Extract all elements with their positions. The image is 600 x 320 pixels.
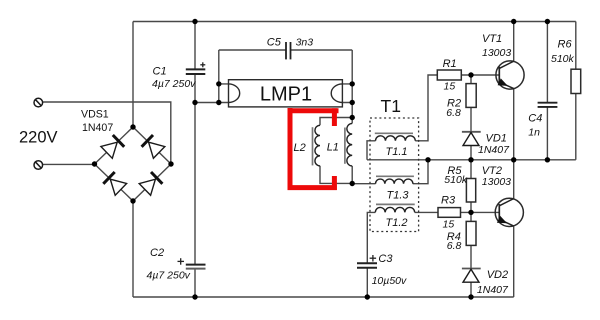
svg-text:L2: L2 <box>294 142 306 154</box>
polarity plus C2 <box>178 258 185 265</box>
polarity plus C1 <box>200 62 205 67</box>
polarity plus C3 <box>370 255 377 262</box>
winding T1.1 coil <box>376 136 416 141</box>
resistor R4 <box>466 221 476 245</box>
svg-text:1N407: 1N407 <box>478 144 510 156</box>
wire top DC rail <box>133 21 576 23</box>
capacitor C2 <box>186 265 206 269</box>
svg-text:C1: C1 <box>153 66 167 78</box>
svg-text:T1.3: T1.3 <box>387 189 410 201</box>
inductor L2 core bar <box>312 127 314 165</box>
svg-text:VT2: VT2 <box>482 165 502 177</box>
wire lower AC input <box>42 163 95 165</box>
svg-text:6.8: 6.8 <box>446 107 461 119</box>
svg-text:C5: C5 <box>267 37 282 49</box>
capacitor C4 <box>538 103 558 107</box>
svg-text:4µ7 250v: 4µ7 250v <box>152 78 196 90</box>
svg-text:C3: C3 <box>378 253 393 265</box>
svg-text:3n3: 3n3 <box>296 37 314 49</box>
svg-text:1N407: 1N407 <box>477 284 509 296</box>
winding T1.2 core bar <box>376 203 415 205</box>
resistor R6 <box>571 69 581 93</box>
wire T1.2 left to C3 <box>367 212 375 297</box>
wire VD1 to mid rail <box>470 146 472 160</box>
wire T1.2 right to R3 <box>415 211 438 213</box>
capacitor C1 <box>186 69 206 74</box>
svg-text:220V: 220V <box>19 129 58 147</box>
wire R4 column <box>470 212 472 221</box>
lamp LMP1 left filament <box>229 84 240 103</box>
svg-text:1N407: 1N407 <box>82 122 113 134</box>
transistor VT2 <box>495 198 523 226</box>
resistor R3 <box>438 208 461 218</box>
svg-text:10µ50v: 10µ50v <box>372 275 407 287</box>
svg-text:6.8: 6.8 <box>447 240 462 252</box>
wire R6 column <box>575 22 577 160</box>
svg-text:VT1: VT1 <box>482 33 502 45</box>
svg-text:R1: R1 <box>443 58 457 70</box>
winding T1.3 core bar <box>376 175 414 177</box>
diode bridge VDS1 top-left <box>101 135 124 158</box>
diode bridge VDS1 top-right <box>142 135 165 158</box>
winding T1.1 core bar <box>375 132 413 134</box>
wire VD2 to bottom rail <box>470 282 472 297</box>
wire R2 to VD1 <box>470 107 472 131</box>
svg-text:15: 15 <box>444 80 456 92</box>
wire lamp left node <box>195 50 229 103</box>
inductor L1 core bar <box>344 128 346 164</box>
wire upper AC input <box>42 102 171 164</box>
svg-text:R3: R3 <box>441 194 456 206</box>
capacitor C3 <box>357 263 377 268</box>
wire bottom rail <box>133 296 514 298</box>
svg-text:VDS1: VDS1 <box>81 109 109 121</box>
transistor VT1 <box>496 61 524 89</box>
svg-text:T1.2: T1.2 <box>386 217 408 229</box>
svg-text:T1.1: T1.1 <box>386 146 408 158</box>
wire T1.1 right end to R1 <box>415 75 437 141</box>
svg-text:15: 15 <box>443 218 455 230</box>
wire C4 column <box>546 22 548 160</box>
svg-text:4µ7 250v: 4µ7 250v <box>147 270 191 282</box>
inductor L1 coil <box>347 123 352 166</box>
resistor R2 <box>466 84 476 108</box>
svg-text:R6: R6 <box>558 39 573 51</box>
svg-text:13003: 13003 <box>482 47 511 59</box>
terminal lower mains input <box>34 161 43 170</box>
svg-text:VD1: VD1 <box>486 132 507 144</box>
wire mid rail (half-bridge output) <box>367 159 576 161</box>
svg-text:L1: L1 <box>327 141 339 153</box>
resistor R5 <box>466 179 475 203</box>
wire bridge minus to bottom rail <box>132 201 134 297</box>
diode VD2 <box>462 269 481 283</box>
wire R1 to VT1 base <box>461 74 499 76</box>
lamp LMP1 right filament <box>331 84 342 103</box>
wire R4 to VD2 <box>470 245 472 268</box>
wire left DC riser <box>132 22 134 128</box>
diode bridge VDS1 bottom-left <box>103 172 126 195</box>
wire T1.1 left end <box>367 141 376 160</box>
lamp LMP1 body <box>229 80 343 107</box>
terminal upper mains input <box>34 98 43 107</box>
diode bridge VDS1 bottom-right <box>139 172 162 195</box>
annotation red highlight box around L2 <box>288 108 339 190</box>
svg-text:T1: T1 <box>381 96 401 116</box>
wire VT2 collector <box>513 160 515 199</box>
winding T1.3 coil <box>376 179 413 184</box>
svg-text:510k: 510k <box>444 174 468 186</box>
wire C1 C2 column <box>194 22 196 298</box>
svg-text:C4: C4 <box>528 113 542 125</box>
wire bridge diamond <box>95 127 172 201</box>
diode VD1 <box>462 132 481 146</box>
wire R3 to VT2 base <box>461 211 500 213</box>
wire VT2 emitter to bottom rail <box>513 226 515 297</box>
wire L1 bottom to T1.3 node <box>352 166 375 184</box>
svg-text:VD2: VD2 <box>487 269 508 281</box>
svg-text:1n: 1n <box>528 126 540 138</box>
svg-text:510k: 510k <box>551 53 575 65</box>
transformer T1 dashed box <box>370 118 419 232</box>
svg-text:LMP1: LMP1 <box>260 84 312 106</box>
svg-text:13003: 13003 <box>482 176 511 188</box>
inductor L2 coil <box>315 125 320 166</box>
capacitor C5 <box>286 42 291 59</box>
svg-text:C2: C2 <box>150 247 164 259</box>
wire VT1 collector <box>513 22 515 62</box>
wire R5 column <box>470 160 472 213</box>
wire R2 column <box>470 75 472 84</box>
winding T1.2 coil <box>375 207 414 212</box>
wire VT1 emitter to mid rail <box>513 89 515 160</box>
wire C5 loop <box>219 49 352 51</box>
resistor R1 <box>437 70 461 80</box>
wire L2 branch <box>320 118 352 184</box>
wire lamp right node <box>342 50 352 123</box>
wire T1.3 right end riser <box>413 160 428 184</box>
